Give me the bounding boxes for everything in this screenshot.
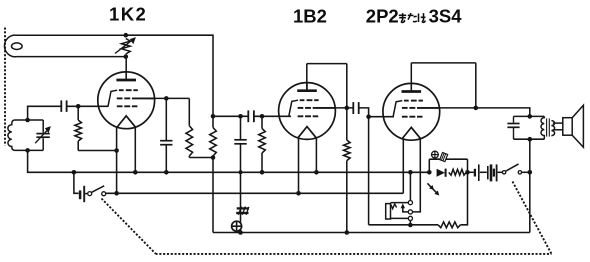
node R5 bottom-line junction bbox=[345, 230, 350, 235]
indicator lamp symbol (circle-plus) bbox=[432, 151, 439, 158]
node tank top junction bbox=[528, 114, 533, 119]
resistor R2 (V1 screen feed) bbox=[186, 98, 193, 157]
antenna coil L1 (loop antenna) bbox=[4, 35, 125, 57]
node diode right junction bbox=[465, 170, 470, 175]
node V2 screen/plate junction bbox=[345, 106, 350, 111]
switch S1 blade bbox=[92, 186, 105, 193]
wire V2 filament left leg bbox=[298, 138, 300, 193]
node C2-rail junction bbox=[164, 170, 169, 175]
VR2 wiper arrow bbox=[401, 203, 409, 212]
node antenna-top junction bbox=[124, 33, 129, 38]
capacitor C5 (V2-V3 coupling) bbox=[353, 102, 358, 114]
node V3 screen/plate junction bbox=[474, 106, 479, 111]
wire R2 bottom link bbox=[189, 157, 213, 159]
battery BT1 (filament cell) bbox=[80, 186, 84, 202]
capacitor C3 (V1-V2 coupling) bbox=[248, 110, 254, 122]
node V1 grid-leak junction bbox=[76, 104, 81, 109]
wire V1 filament right leg bbox=[134, 127, 136, 172]
wire top B+ line bbox=[126, 34, 213, 36]
light arrow (photo indication) bbox=[427, 183, 439, 195]
tube V2 (1B2) bbox=[278, 83, 335, 140]
switch S2 contact b bbox=[518, 171, 521, 174]
svg-text:2P2: 2P2 bbox=[366, 6, 399, 27]
wire S2 to right column bbox=[522, 171, 530, 173]
wire tank-top to grid line bbox=[27, 106, 29, 120]
svg-text:1B2: 1B2 bbox=[293, 6, 327, 27]
wire V3 filament right leg bbox=[413, 139, 421, 212]
resistor R1 (V1 grid leak) bbox=[75, 106, 82, 150]
transformer T1 primary winding bbox=[541, 116, 544, 139]
wire V2 plate riser bbox=[306, 64, 308, 91]
tube V3 (2P2/3S4 output pentode) bbox=[382, 83, 439, 140]
wire bottom loop left bbox=[369, 224, 438, 226]
resistor R7 (grid bias) bbox=[438, 222, 461, 228]
node tank top junction bbox=[25, 118, 30, 123]
wire speaker leads bbox=[553, 123, 563, 130]
wire rail to jack tip bbox=[409, 172, 411, 200]
variable capacitor VC1 (tuning) bbox=[35, 120, 51, 150]
wire right column bbox=[529, 139, 531, 232]
capacitor C7 (tone capacitor) bbox=[507, 116, 519, 139]
wire V1 screen lead bbox=[148, 97, 189, 99]
dotted chassis boundary (left vertical) bbox=[4, 28, 6, 146]
transformer T1 secondary winding bbox=[551, 121, 554, 136]
label matawa (Japanese: or) drawn as strokes bbox=[399, 13, 426, 22]
node V3 grid junction bbox=[366, 114, 371, 119]
polarity mark circled-plus (large) bbox=[231, 221, 241, 231]
wire jack sleeve drop bbox=[409, 221, 411, 226]
node jack feed junction bbox=[408, 170, 413, 175]
chassis bar (hatched) at detector return bbox=[236, 207, 249, 215]
wire V2 screen lead bbox=[335, 107, 354, 109]
wire screen bypass drop bbox=[165, 98, 167, 140]
wire BT1 to S1 bbox=[84, 193, 88, 195]
node jack-bottom junction bbox=[408, 223, 413, 228]
resistor R5 (V2 plate load) bbox=[344, 140, 351, 233]
wire screen to output tank bbox=[476, 108, 530, 117]
wire bottom return line bbox=[213, 232, 530, 234]
wire V3 plate top link bbox=[411, 62, 476, 64]
wire lamp branch left riser bbox=[428, 159, 430, 172]
node diode left junction bbox=[427, 170, 432, 175]
wire grid line right segment bbox=[67, 105, 108, 107]
node R2/R3 junction bbox=[211, 155, 216, 160]
wire V3 plate drop bbox=[475, 63, 477, 108]
dotted gang link (bottom horizontal) bbox=[156, 253, 552, 255]
capacitor C4 (detector bypass) bbox=[234, 140, 246, 144]
node V2 fil-right junction bbox=[314, 170, 319, 175]
wire C4 to rail and below bbox=[240, 144, 242, 233]
switch S2 contact a bbox=[502, 171, 505, 174]
wire C5 out corner bbox=[359, 108, 369, 117]
wire A-battery drop bbox=[74, 172, 79, 193]
wire x213 rail crossing to bottom line bbox=[212, 158, 214, 233]
wire V1 filament left leg bbox=[116, 128, 118, 194]
node tank bottom junction bbox=[528, 137, 533, 142]
node R4-rail junction bbox=[260, 170, 265, 175]
node R1-filament junction bbox=[114, 148, 119, 153]
switch S2 blade bbox=[506, 164, 519, 171]
wire bottom loop right bbox=[461, 172, 468, 225]
node V1 fil-left to A-rail bbox=[114, 191, 119, 196]
wire B+ down-leg (x=213) bbox=[212, 35, 214, 117]
battery BT2 (plate supply cells) bbox=[468, 164, 503, 181]
wire lamp branch right riser bbox=[467, 159, 469, 172]
node antenna-bottom junction bbox=[124, 54, 129, 59]
potentiometer VR2 body bbox=[386, 204, 391, 219]
wire V2 filament right leg bbox=[315, 138, 317, 172]
resistor R3 (V1 plate load) bbox=[210, 116, 217, 157]
node bottom-line junction at x=240.5 bbox=[238, 230, 243, 235]
diode D1 bbox=[437, 169, 446, 177]
node V1 screen junction bbox=[164, 96, 169, 101]
wire V3 filament left leg bbox=[402, 139, 404, 194]
wire V1 plate lead bbox=[125, 57, 127, 81]
resistor R6 (in rail) bbox=[449, 169, 466, 175]
wire tank top bbox=[514, 115, 545, 117]
node rail-battery branch bbox=[72, 170, 77, 175]
wire C3 to V2 grid bbox=[254, 115, 291, 117]
dotted gang link (left diagonal) bbox=[102, 199, 156, 254]
jack J1 contact 3 bbox=[408, 216, 412, 220]
capacitor C2 (screen bypass) bbox=[160, 141, 172, 145]
wire R1 bottom to filament leg bbox=[78, 150, 116, 152]
wire grid line left segment bbox=[27, 105, 61, 107]
switch S1 contact a bbox=[88, 192, 92, 196]
wire main rail (left section) bbox=[28, 150, 430, 172]
tube V1 (1K2 pentode) bbox=[97, 72, 154, 129]
wire V2 plate drop (x=347) bbox=[346, 64, 348, 140]
node tank bottom junction bbox=[25, 148, 30, 153]
node V1 fil-right to ground rail bbox=[133, 170, 138, 175]
wire V3 plate riser bbox=[410, 63, 412, 92]
wire V3 screen lead bbox=[439, 107, 476, 109]
switch S1 contact b bbox=[102, 192, 106, 196]
capacitor C1 (V1 grid coupling) bbox=[61, 100, 66, 112]
node C3 left junction bbox=[238, 114, 243, 119]
wire V3 grid-return drop (x=368.6) bbox=[368, 117, 370, 225]
wire lamp branch top bbox=[429, 158, 467, 160]
resistor R4 (V2 grid leak) bbox=[259, 116, 266, 172]
jack J1 contact 1 bbox=[408, 201, 412, 205]
wire A-rail (filament supply line) bbox=[106, 192, 404, 194]
dotted gang link (right diagonal) bbox=[513, 182, 552, 254]
node B+ branch junction bbox=[211, 114, 216, 119]
crystal element (hatched box) bbox=[440, 152, 448, 161]
node V2 fil-left to A-rail bbox=[296, 191, 301, 196]
svg-text:3S4: 3S4 bbox=[429, 6, 463, 27]
transformer T1 core bbox=[547, 118, 550, 136]
variable resistor VR1 (regeneration control) bbox=[115, 37, 136, 54]
tuning coil L2 (tank left side with bumps) bbox=[8, 120, 43, 150]
wire interstage node bbox=[213, 115, 248, 117]
wire V2 plate top link bbox=[307, 63, 347, 65]
node C4-rail junction bbox=[239, 170, 243, 174]
wire tank bottom bbox=[514, 138, 545, 140]
node right column junction bbox=[528, 170, 533, 175]
wire C2 to rail bbox=[165, 145, 167, 173]
svg-text:1K2: 1K2 bbox=[109, 4, 147, 25]
wire VR2 top to jack tip bbox=[391, 202, 409, 204]
potentiometer VR2 element zigzag bbox=[391, 204, 397, 209]
jack J1 contact 2 bbox=[408, 210, 412, 214]
wire V3 grid lead bbox=[369, 116, 394, 118]
speaker SP1 bbox=[563, 105, 584, 147]
node V2 grid-leak junction bbox=[260, 114, 265, 119]
wire C4 drop bbox=[240, 116, 242, 139]
wire VR2 bottom to jack contact3 bbox=[391, 217, 409, 219]
